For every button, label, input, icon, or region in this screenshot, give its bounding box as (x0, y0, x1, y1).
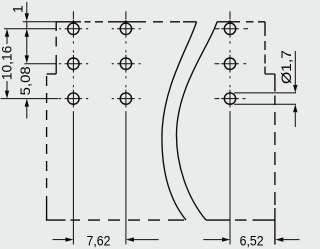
dimension 1: connector segment (26, 22, 28, 29)
centerline col2 vertical + extension (125, 11, 127, 244)
arrowhead 1-dim down (25, 13, 29, 21)
svg-text:10,16: 10,16 (0, 45, 15, 80)
arrowhead 5,08 up (tip at row3) (25, 99, 29, 107)
svg-text:5,08: 5,08 (17, 66, 33, 95)
centerline col3 vertical + extension (229, 11, 231, 244)
centerline col1 vertical + extension (72, 11, 74, 244)
hole col2 row2 (120, 58, 131, 69)
dimension 5,08 lower outside shaft (26, 106, 28, 119)
arrowhead 6,52 right (tip at right edge) (275, 237, 283, 241)
svg-text:1: 1 (10, 5, 26, 13)
arrowhead 7,62 right (tip at col2) (126, 237, 134, 241)
dimension 6,52 right arrow tail (283, 239, 299, 241)
diameter tangent line top (234, 92, 296, 94)
svg-text:Ø1,7: Ø1,7 (278, 50, 294, 84)
arrowhead 5,08 down (tip at row2) (25, 55, 29, 63)
arrowhead 10,16 down (tip at row3) (5, 91, 9, 99)
hole col3 row2 (224, 58, 235, 69)
outline top edge (dashed hidden line) (56, 21, 265, 23)
dimension 6,52 left arrow tail (203, 239, 222, 241)
hole col3 row3 (224, 93, 235, 104)
break line curve 2 (176, 22, 217, 220)
hole col1 row3 (68, 93, 79, 104)
outline left edge with step (47, 22, 57, 220)
hole circles (68, 23, 236, 104)
arrowhead 10,16 up (tip at row1) (5, 29, 9, 37)
hole col2 row3 (120, 93, 131, 104)
extension line top edge left (23, 21, 57, 23)
dimension 1: upper arrow shaft (26, 2, 28, 13)
arrowhead 1-dim / 5,08 up (tip at row1) (25, 29, 29, 37)
arrowhead diameter down (tip at top tangent) (293, 85, 297, 93)
shared shaft (1 lower arrow / 5,08 upper arrow) (26, 36, 28, 55)
diameter leader upper shaft (294, 51, 296, 85)
hole col1 row2 (68, 58, 79, 69)
arrowhead 7,62 left (tip at col1) (65, 237, 73, 241)
diameter leader lower shaft (294, 112, 296, 127)
diameter tangent line bottom (234, 103, 296, 105)
centerline row2 horizontal (25, 63, 247, 65)
arrowhead diameter up (tip at bottom tangent) (293, 104, 297, 112)
break line curve 1 (162, 22, 197, 220)
dimension 7,62 left arrow tail (53, 239, 67, 241)
outline bottom edge (dashed) (46, 219, 275, 221)
dimension 7,62 right arrow tail (134, 239, 159, 241)
hole col3 row1 (224, 23, 235, 34)
svg-text:7,62: 7,62 (87, 233, 111, 249)
dimension 10,16 line segments (6, 36, 8, 91)
svg-text:6,52: 6,52 (240, 233, 264, 249)
hole col1 row1 (68, 23, 79, 34)
outline right edge with step (265, 22, 275, 245)
centerline row3 horizontal (1, 98, 246, 100)
centerline row1 horizontal (4, 28, 248, 30)
arrowhead 6,52 left (tip at col3) (222, 237, 230, 241)
hole col2 row1 (120, 23, 131, 34)
